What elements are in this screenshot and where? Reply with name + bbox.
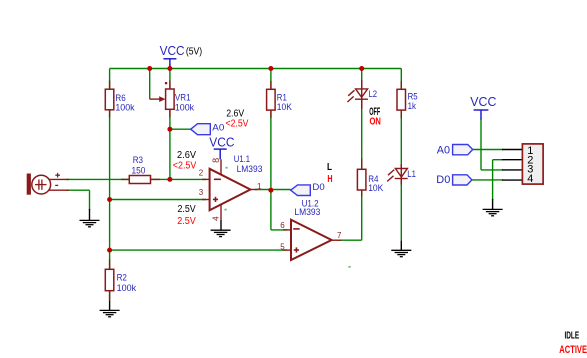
- svg-text:VCC: VCC: [160, 44, 185, 58]
- svg-text:4: 4: [211, 216, 220, 221]
- svg-text:<2.5V: <2.5V: [226, 119, 249, 130]
- svg-text:100k: 100k: [117, 283, 137, 293]
- svg-text:H: H: [327, 173, 332, 185]
- svg-text:(5V): (5V): [186, 46, 202, 57]
- svg-text:2.5V: 2.5V: [177, 216, 196, 227]
- svg-text:R1: R1: [277, 92, 287, 102]
- svg-text:LM393: LM393: [294, 207, 320, 217]
- svg-text:U1.1: U1.1: [234, 154, 250, 164]
- svg-text:R5: R5: [408, 92, 418, 102]
- svg-text:7: 7: [337, 231, 342, 240]
- svg-text:R3: R3: [133, 155, 143, 165]
- svg-text:A0: A0: [212, 123, 224, 133]
- svg-text:ON: ON: [370, 116, 381, 128]
- svg-text:LM393: LM393: [237, 164, 263, 174]
- svg-text:R6: R6: [115, 93, 125, 103]
- svg-text:2: 2: [199, 169, 204, 178]
- svg-text:ACTIVE: ACTIVE: [559, 344, 587, 356]
- svg-text:1k: 1k: [408, 101, 417, 111]
- svg-text:100k: 100k: [115, 103, 135, 113]
- svg-text:<2.5V: <2.5V: [173, 161, 197, 172]
- svg-text:5: 5: [280, 242, 285, 251]
- svg-text:3: 3: [199, 188, 204, 197]
- svg-text:100k: 100k: [175, 103, 195, 113]
- svg-text:D0: D0: [312, 182, 324, 192]
- svg-text:L2: L2: [369, 89, 378, 99]
- svg-text:D0: D0: [436, 174, 450, 186]
- svg-text:VR1: VR1: [175, 93, 191, 103]
- svg-text:1: 1: [257, 182, 262, 191]
- svg-text:2.6V: 2.6V: [177, 150, 196, 161]
- svg-text:4: 4: [527, 173, 533, 185]
- svg-text:L1: L1: [407, 169, 416, 179]
- svg-text:150: 150: [132, 166, 146, 176]
- svg-text:VCC: VCC: [470, 95, 496, 109]
- svg-text:IDLE: IDLE: [565, 331, 580, 342]
- svg-text:10K: 10K: [277, 102, 292, 112]
- svg-text:R2: R2: [117, 272, 127, 282]
- svg-text:10K: 10K: [368, 183, 383, 193]
- svg-text:6: 6: [280, 221, 285, 230]
- svg-text:8: 8: [211, 158, 221, 163]
- svg-text:A0: A0: [437, 145, 450, 157]
- svg-text:2.5V: 2.5V: [178, 204, 196, 215]
- svg-text:L: L: [327, 161, 332, 173]
- svg-text:VCC: VCC: [209, 135, 234, 149]
